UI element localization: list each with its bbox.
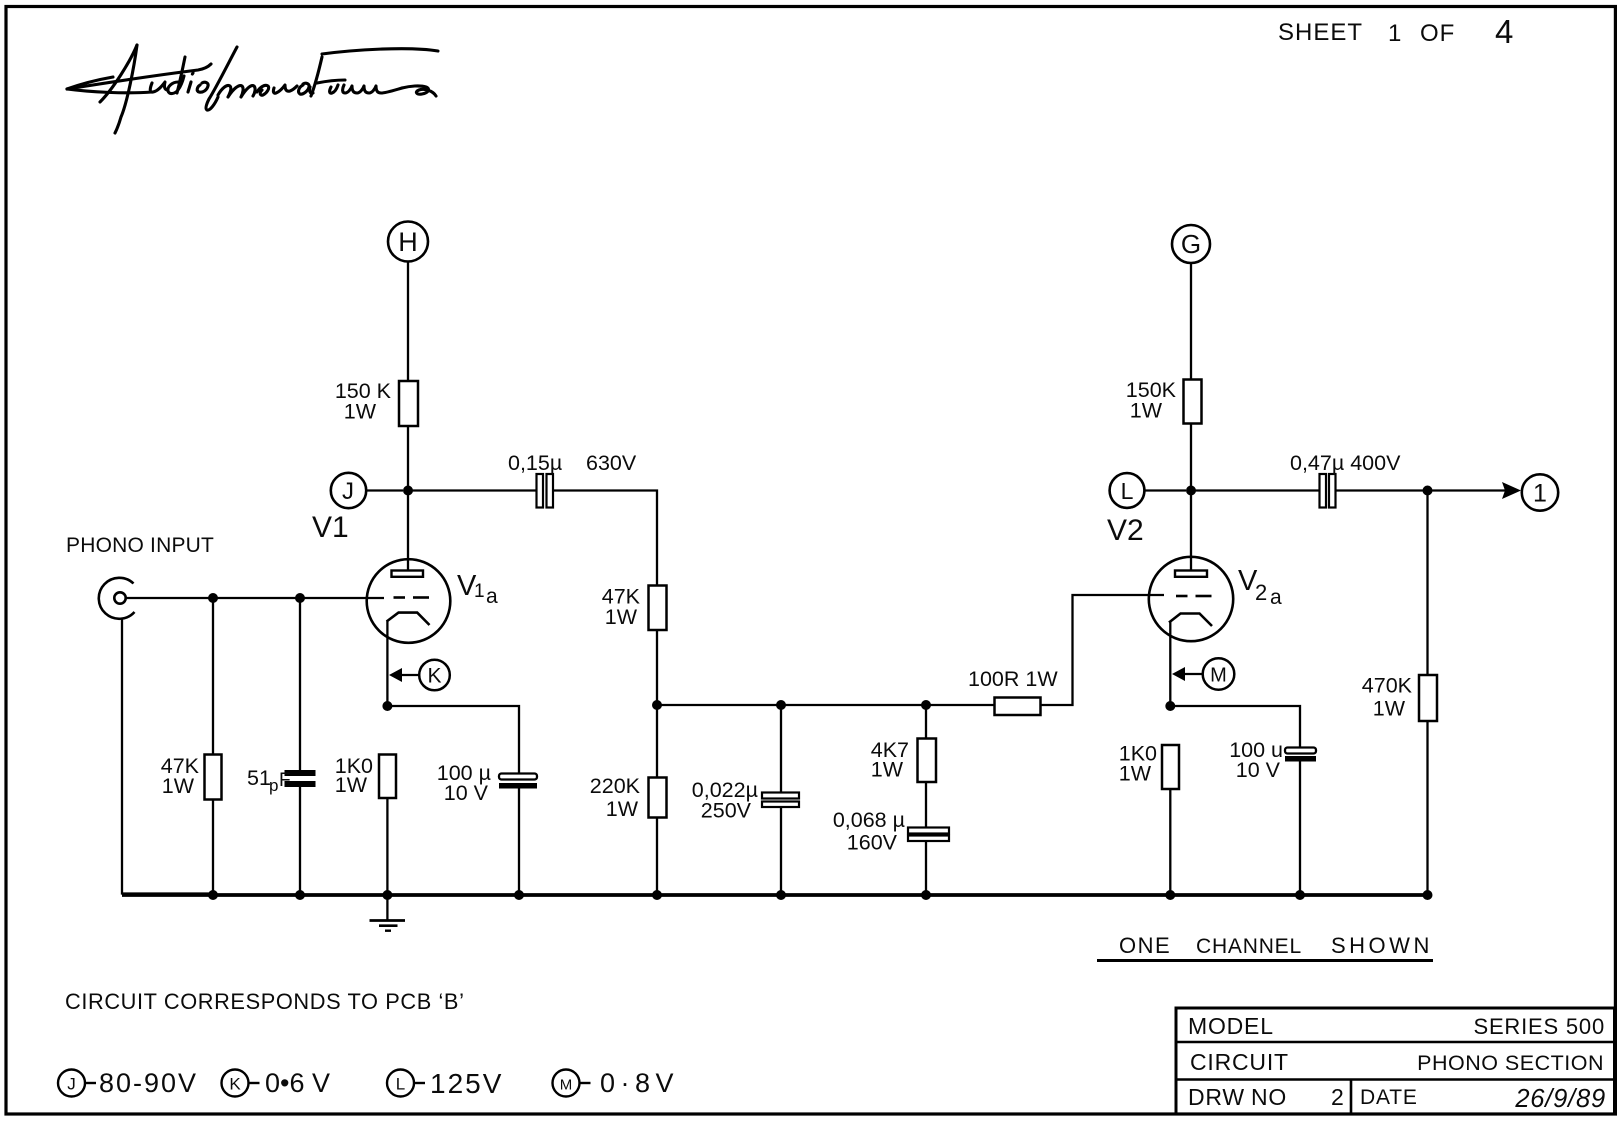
svg-text:CIRCUIT CORRESPONDS TO PCB ‘B’: CIRCUIT CORRESPONDS TO PCB ‘B’ (65, 989, 465, 1014)
label V2a (1238, 565, 1282, 609)
wire down to input 47K (212, 598, 214, 755)
wire G to R 150K (1190, 263, 1192, 380)
svg-text:0•6 V: 0•6 V (265, 1068, 330, 1098)
capacitor 0,022u 250V (692, 778, 799, 823)
ground rail (bottom bus) (122, 893, 1428, 897)
junction 100u rail (514, 890, 524, 900)
svg-text:2: 2 (1255, 580, 1267, 605)
resistor 150K 1W (V1 anode) (335, 379, 418, 426)
junction 51pF rail (295, 890, 305, 900)
svg-text:V1: V1 (312, 511, 349, 544)
svg-text:1: 1 (1533, 480, 1547, 508)
svg-text:CHANNEL: CHANNEL (1196, 935, 1302, 958)
ground (370, 895, 406, 931)
svg-text:M: M (560, 1077, 573, 1094)
svg-text:PHONO INPUT: PHONO INPUT (66, 534, 214, 557)
wire cathode node to 100u cap (387, 706, 519, 774)
resistor 47K 1W (input) (161, 754, 222, 800)
triode V2a (1149, 491, 1233, 707)
svg-text:1W: 1W (1373, 697, 1406, 721)
wire output node down to 470K (1426, 491, 1428, 676)
terminal M with arrow (1172, 658, 1234, 690)
svg-text:1W: 1W (335, 773, 368, 797)
wire 1K0 V2 to rail (1169, 789, 1171, 895)
legend terminal M voltage (553, 1068, 680, 1098)
wire 100R to V2 grid (1041, 595, 1165, 705)
svg-text:M: M (1210, 665, 1227, 687)
svg-text:80-90V: 80-90V (99, 1068, 198, 1098)
svg-text:CIRCUIT: CIRCUIT (1190, 1049, 1289, 1075)
svg-text:1: 1 (1388, 20, 1402, 47)
wire 51pF to rail (299, 786, 301, 895)
svg-text:1W: 1W (871, 758, 904, 782)
junction 1K0 rail + ground (382, 890, 392, 900)
resistor 150K 1W (V2 anode) (1126, 378, 1202, 424)
svg-text:V2: V2 (1107, 514, 1144, 547)
svg-text:160V: 160V (847, 831, 898, 855)
svg-text:220K: 220K (590, 774, 641, 798)
svg-text:SHEET: SHEET (1278, 19, 1363, 46)
wire horizontal node row y=705 (657, 704, 995, 706)
node junction at V2 anode (1186, 486, 1196, 496)
svg-text:H: H (398, 227, 418, 257)
wire 100u V2 to rail (1299, 761, 1301, 895)
svg-text:470K: 470K (1362, 674, 1413, 698)
junction 100u V2 rail (1295, 890, 1305, 900)
svg-text:1W: 1W (162, 774, 195, 798)
svg-text:1W: 1W (1119, 762, 1152, 786)
wire capacitor to output node (1336, 489, 1428, 491)
junction 4K7 top (921, 700, 931, 710)
node junction at V1 anode (403, 486, 413, 496)
junction 1K0 V2 rail (1165, 890, 1175, 900)
junction node feedback rail left (652, 700, 662, 710)
terminal J (331, 473, 403, 508)
triode V1a (367, 491, 451, 706)
wire H to R 150K (407, 262, 409, 382)
handwritten note ONE CHANNEL SHOWN (1097, 933, 1433, 961)
capacitor 0,47u 400V (1290, 451, 1401, 508)
svg-text:F: F (279, 770, 291, 791)
title block (1176, 1008, 1615, 1114)
junction output node (1423, 486, 1433, 496)
wire 4K7 to capacitor 0,068u (925, 782, 927, 828)
handwritten sheet note: SHEET 1 OF 4 (1278, 13, 1514, 50)
svg-text:K: K (427, 665, 441, 688)
svg-text:a: a (1270, 586, 1282, 609)
svg-text:51: 51 (247, 766, 271, 790)
svg-text:100R 1W: 100R 1W (968, 667, 1058, 691)
resistor 1K0 1W (V1 cathode) (335, 754, 396, 798)
wire 47K to node (656, 630, 658, 705)
svg-text:4: 4 (1495, 13, 1514, 50)
junction 0,022u top (776, 700, 786, 710)
resistor 1K0 1W (V2 cathode) (1119, 742, 1179, 790)
wire R 150K to node L (1190, 424, 1192, 491)
wire 0,068u to rail (925, 841, 927, 895)
junction cathode V1 (382, 701, 392, 711)
capacitor 51pF (247, 766, 315, 795)
wire input to V1 grid (126, 597, 384, 599)
legend terminal K voltage (222, 1068, 331, 1098)
capacitor 100u 10V (V2) (1229, 738, 1316, 782)
junction input 47K rail (208, 890, 218, 900)
svg-text:p: p (269, 776, 278, 795)
svg-text:0·8V: 0·8V (600, 1068, 679, 1098)
junction 0,022u rail (776, 890, 786, 900)
svg-text:ONE: ONE (1119, 933, 1171, 958)
wire input shield down to rail (122, 618, 214, 894)
resistor 47K 1W (interstage) (602, 585, 667, 631)
svg-text:J: J (67, 1075, 76, 1094)
svg-text:OF: OF (1420, 20, 1455, 47)
wire node to capacitor 0,47u (1191, 489, 1319, 491)
terminal L (1110, 473, 1186, 508)
resistor 100R 1W (968, 667, 1058, 715)
terminal K with arrow (389, 660, 450, 691)
resistor 470K 1W (1362, 674, 1437, 722)
svg-text:MODEL: MODEL (1188, 1013, 1274, 1039)
svg-text:NO: NO (1251, 1084, 1287, 1110)
wire 0,022u to rail (780, 807, 782, 895)
wire node to capacitor 0,15u (408, 489, 536, 491)
wire cathode node to 100u cap (V2) (1170, 706, 1300, 748)
wire down to capacitor 0,022u (780, 705, 782, 793)
wire 47K to rail (212, 800, 214, 896)
wire 470K to rail (1426, 721, 1428, 895)
svg-text:1W: 1W (344, 400, 377, 424)
wire node to 220K (656, 705, 658, 778)
junction 4K7 rail (921, 890, 931, 900)
svg-text:1W: 1W (1130, 399, 1163, 423)
svg-text:SHOWN: SHOWN (1331, 933, 1433, 958)
junction input 51pF (295, 593, 305, 603)
junction cathode V2 (1165, 701, 1175, 711)
legend terminal J voltage (58, 1068, 198, 1098)
svg-text:10 V: 10 V (1236, 758, 1281, 782)
resistor 220K 1W (590, 774, 667, 821)
svg-text:1: 1 (474, 581, 485, 602)
svg-text:0,068 µ: 0,068 µ (833, 808, 905, 832)
resistor 4K7 1W (871, 738, 936, 782)
junction 470K rail (1423, 890, 1433, 900)
svg-text:630V: 630V (586, 451, 637, 475)
svg-text:PHONO SECTION: PHONO SECTION (1417, 1051, 1604, 1075)
wire down to 4K7 (925, 705, 927, 739)
capacitor 100u 10V (V1) (437, 761, 537, 805)
wire 1K0 to rail (386, 798, 388, 895)
svg-text:1W: 1W (606, 797, 639, 821)
svg-text:DATE: DATE (1360, 1086, 1418, 1109)
wire down to 51pF (299, 598, 301, 772)
wire arrow to terminal 1 (1428, 482, 1522, 499)
svg-text:K: K (229, 1075, 241, 1094)
svg-text:0,15µ: 0,15µ (508, 451, 562, 475)
svg-text:1W: 1W (605, 605, 638, 629)
wire R 150K to node J (407, 426, 409, 490)
svg-text:L: L (1121, 478, 1134, 504)
terminal 1 (1522, 474, 1558, 510)
svg-text:J: J (342, 478, 354, 505)
wire 100u to rail (518, 789, 520, 896)
svg-text:10 V: 10 V (444, 781, 489, 805)
svg-text:2: 2 (1331, 1084, 1345, 1110)
svg-text:SERIES 500: SERIES 500 (1473, 1014, 1605, 1039)
wire capacitor to corner, down to R 47K (553, 491, 657, 586)
svg-text:G: G (1181, 229, 1201, 259)
junction input 47K (208, 593, 218, 603)
capacitor 0,068u 160V (833, 808, 949, 855)
svg-text:250V: 250V (701, 799, 752, 823)
svg-text:125V: 125V (430, 1068, 503, 1099)
signature logo Audio Innovations (67, 45, 438, 133)
svg-text:DRW: DRW (1188, 1084, 1245, 1110)
svg-text:0,47µ 400V: 0,47µ 400V (1290, 451, 1401, 475)
svg-text:26/9/89: 26/9/89 (1514, 1085, 1606, 1113)
capacitor 0,15u 630V (508, 451, 637, 508)
svg-text:a: a (486, 585, 498, 608)
terminal H (388, 222, 428, 262)
legend terminal L voltage (387, 1068, 503, 1099)
junction 220K rail (652, 890, 662, 900)
label V1a (457, 570, 498, 608)
phono input connector (99, 578, 135, 619)
terminal G (1172, 225, 1210, 263)
svg-text:L: L (396, 1075, 405, 1094)
wire 220K to ground rail (656, 818, 658, 896)
